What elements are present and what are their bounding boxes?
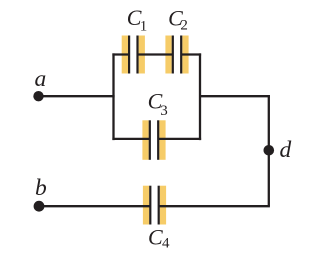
svg-text:3: 3: [160, 103, 168, 119]
wire right edge of parallel box: [199, 53, 201, 140]
wire from terminal a to parallel network: [39, 95, 115, 97]
capacitor C2 dielectric highlight bands: [165, 36, 188, 74]
capacitor C4 dielectric highlight bands: [143, 186, 166, 225]
svg-text:4: 4: [162, 236, 170, 252]
svg-text:d: d: [280, 137, 292, 163]
svg-text:b: b: [35, 175, 47, 201]
wire from C4 to right vertical: [159, 205, 270, 207]
capacitor C1 dielectric highlight bands: [122, 36, 145, 74]
wire top edge segment right of C2: [181, 53, 201, 55]
svg-text:C: C: [148, 225, 163, 250]
wire top edge segment left of C1: [112, 53, 129, 55]
terminal a node dot: [33, 91, 43, 101]
terminal b node dot: [34, 201, 45, 212]
svg-text:2: 2: [180, 18, 188, 34]
capacitor C4 plates: [149, 186, 160, 225]
capacitor C3 plates: [149, 120, 160, 160]
wire top edge segment between C1 and C2: [138, 53, 173, 55]
wire right vertical through node d: [268, 95, 270, 206]
wire left edge of parallel box: [112, 53, 114, 140]
node d dot: [264, 145, 275, 156]
wire from terminal b to C4: [39, 205, 150, 207]
svg-text:a: a: [35, 66, 47, 92]
wire bottom edge segment right of C3: [158, 138, 201, 140]
capacitor C3 dielectric highlight bands: [142, 120, 165, 160]
svg-text:1: 1: [140, 19, 148, 35]
capacitor C2 plates: [172, 36, 183, 74]
wire bottom edge segment left of C3: [112, 138, 149, 140]
wire from parallel network to right vertical: [200, 95, 270, 97]
capacitor C1 plates: [128, 36, 139, 74]
